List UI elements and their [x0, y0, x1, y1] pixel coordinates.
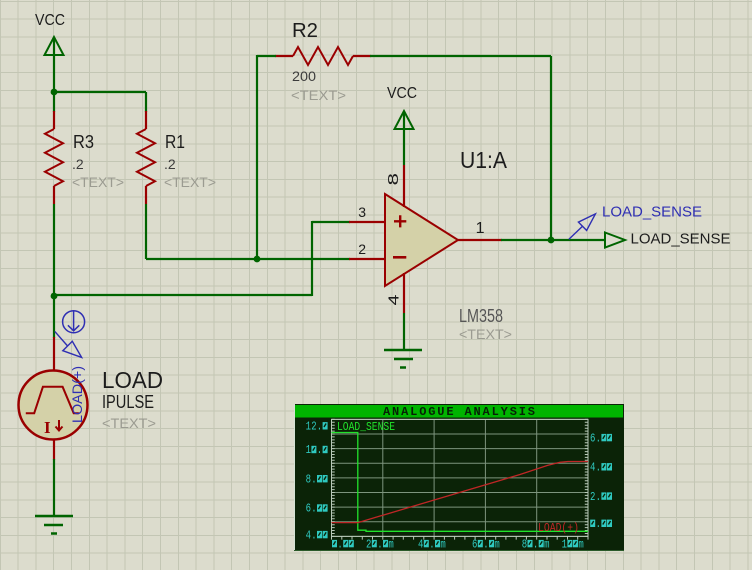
svg-text:m: m [388, 538, 393, 551]
svg-text:LOAD_SENSE: LOAD_SENSE [602, 204, 702, 221]
resistor R2 [275, 20, 371, 103]
wire label pointer (blue) [569, 214, 596, 239]
svg-text:2: 2 [358, 241, 366, 257]
pin number 2 [358, 241, 366, 257]
analysis graph window [294, 404, 624, 551]
svg-text:.: . [596, 432, 601, 445]
pin number 8 [385, 173, 402, 186]
svg-text:<TEXT>: <TEXT> [164, 174, 216, 190]
junction at VCC node [51, 89, 58, 96]
svg-text:LM358: LM358 [459, 306, 503, 326]
pin number 4 [386, 295, 403, 306]
junction inverting node [254, 256, 261, 263]
svg-text:8: 8 [385, 173, 402, 186]
terminal name LOAD_SENSE (black) [631, 231, 731, 248]
svg-text:<TEXT>: <TEXT> [72, 174, 124, 190]
svg-text:m: m [544, 538, 549, 551]
svg-text:I: I [44, 418, 51, 437]
svg-text:LOAD(+): LOAD(+) [538, 521, 579, 535]
svg-text:6: 6 [472, 538, 477, 551]
svg-text:R1: R1 [165, 132, 185, 152]
wire VCC node to R1 [54, 91, 146, 93]
svg-text:3: 3 [358, 204, 366, 220]
svg-text:<TEXT>: <TEXT> [102, 415, 156, 431]
svg-text:ANALOGUE ANALYSIS: ANALOGUE ANALYSIS [383, 405, 535, 419]
label LOAD [102, 367, 163, 393]
label TEXT under IPULSE [102, 415, 156, 431]
svg-text:R2: R2 [292, 20, 318, 42]
wire R3 bottom to load node [53, 204, 55, 296]
probe name LOAD(+) rotated [69, 366, 85, 423]
svg-text:m: m [494, 538, 499, 551]
wire R1 top [145, 92, 147, 112]
svg-text:.: . [337, 538, 342, 551]
label LM358 [459, 306, 503, 326]
svg-text:.2: .2 [72, 156, 84, 172]
svg-text:.: . [483, 538, 488, 551]
svg-text:.: . [317, 421, 322, 434]
current source lead bottom [53, 440, 55, 461]
svg-text:<TEXT>: <TEXT> [459, 326, 512, 342]
svg-text:.: . [311, 503, 316, 516]
svg-text:.: . [311, 473, 316, 486]
svg-text:R3: R3 [73, 132, 94, 152]
resistor R3 [45, 111, 124, 204]
svg-text:LOAD(+): LOAD(+) [69, 366, 85, 423]
svg-text:<TEXT>: <TEXT> [291, 87, 346, 103]
label U1:A [460, 147, 508, 173]
svg-text:U1:A: U1:A [460, 147, 508, 173]
ground (load) [35, 516, 73, 534]
svg-text:.: . [596, 491, 601, 504]
svg-text:.2: .2 [164, 156, 176, 172]
label IPULSE [102, 392, 154, 412]
svg-text:.: . [377, 538, 382, 551]
pin number 1 [476, 220, 485, 237]
svg-text:VCC: VCC [35, 12, 65, 29]
junction load node [51, 293, 58, 300]
svg-text:1: 1 [306, 444, 311, 457]
svg-text:.: . [596, 462, 601, 475]
svg-text:IPULSE: IPULSE [102, 392, 154, 412]
op-amp pin 4 lead [403, 273, 405, 313]
svg-text:200: 200 [292, 68, 316, 84]
svg-text:m: m [578, 538, 583, 551]
op-amp U1 pin 2 stub [349, 258, 385, 260]
svg-text:.: . [429, 538, 434, 551]
op-amp pin 1 stub [458, 239, 502, 241]
svg-text:LOAD_SENSE: LOAD_SENSE [631, 231, 731, 248]
wire output to terminal [501, 239, 605, 241]
wire load node down [53, 296, 55, 338]
probe pointer (blue) [55, 331, 82, 357]
svg-text:.: . [596, 518, 601, 531]
ground (op-amp) [384, 350, 422, 368]
svg-text:1: 1 [476, 220, 485, 237]
svg-text:.: . [533, 538, 538, 551]
power VCC (op-amp) [387, 85, 417, 165]
svg-text:1: 1 [562, 538, 567, 551]
wire R2 left down to inverting node [257, 55, 276, 260]
wire R2 right to output [370, 56, 551, 240]
current source LOAD body [19, 371, 88, 440]
label TEXT under LM358 [459, 326, 512, 342]
wire load node to pin 3 [54, 221, 350, 296]
wire R1 bottom to pin 2 [146, 204, 350, 259]
op-amp U1 pin 3 stub [349, 221, 385, 223]
svg-text:4: 4 [386, 295, 403, 306]
junction output node [548, 237, 555, 244]
resistor R1 [137, 111, 216, 204]
svg-text:.: . [311, 529, 316, 542]
svg-text:VCC: VCC [387, 85, 417, 102]
svg-text:m: m [440, 538, 445, 551]
current probe symbol [63, 311, 85, 333]
svg-text:8: 8 [522, 538, 527, 551]
terminal LOAD_SENSE [605, 233, 625, 248]
svg-text:LOAD: LOAD [102, 367, 163, 393]
svg-text:.: . [317, 444, 322, 457]
svg-text:LOAD_SENSE: LOAD_SENSE [337, 420, 395, 434]
pin number 3 [358, 204, 366, 220]
current source LOAD lead top [53, 337, 55, 371]
svg-text:4: 4 [418, 538, 423, 551]
wire to ground [53, 459, 55, 516]
net label LOAD_SENSE (blue) [602, 204, 702, 221]
svg-text:2: 2 [366, 538, 371, 551]
power VCC (top-left) [35, 12, 65, 92]
wire pin 4 to ground [403, 313, 405, 349]
wire R3 top [53, 92, 55, 112]
op-amp pin 8 lead [403, 165, 405, 207]
op-amp U1:A body [385, 194, 458, 286]
